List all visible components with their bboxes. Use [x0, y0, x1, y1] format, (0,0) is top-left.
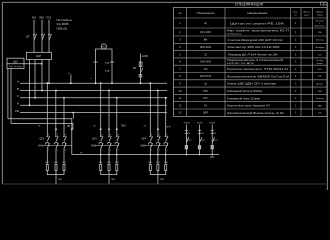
svg-text:11: 11 — [179, 96, 182, 100]
svg-text:КК3: КК3 — [164, 162, 169, 164]
wire KM1 to KK1 phase 3 — [63, 148, 65, 164]
svg-text:Щиток из серии РЕ 19А: Щиток из серии РЕ 19А — [230, 21, 285, 25]
thermal relay KK1 heater 1 — [46, 165, 48, 171]
svg-text:КК3: КК3 — [62, 162, 67, 164]
svg-text:Лисовод Дн-Л 8х4 белая на ЗМ: Лисовод Дн-Л 8х4 белая на ЗМ — [228, 52, 278, 56]
svg-text:2: 2 — [48, 150, 49, 152]
linkage KM3 — [145, 145, 169, 147]
contactor KM2 pole 1 — [99, 142, 103, 148]
wire routing h2 — [11, 124, 73, 130]
svg-text:2: 2 — [151, 150, 152, 152]
node feeder g2a — [100, 128, 102, 130]
wire drop 4 below ЩР — [48, 60, 50, 84]
svg-text:1: 1 — [48, 134, 49, 136]
svg-text:Л1: Л1 — [38, 126, 41, 128]
table column line 4 — [300, 8, 302, 117]
CT symbol left — [94, 61, 98, 63]
row 1 — [179, 21, 325, 28]
svg-text:УФЕ: УФЕ — [318, 90, 323, 93]
table row line 10 — [174, 93, 328, 95]
group 3 phase C wire — [165, 98, 167, 137]
svg-text:QF1-QF3: QF1-QF3 — [200, 30, 212, 34]
svg-text:1: 1 — [102, 134, 103, 136]
svg-text:B: B — [17, 87, 19, 91]
svg-text:ХЛУ: ХЛУ — [203, 89, 208, 93]
table column line 1 — [186, 8, 188, 117]
row 4 — [179, 45, 325, 49]
contactor KM2 pole 2 — [107, 142, 111, 148]
wire motor M1 stem — [55, 175, 57, 184]
wire PE drop — [72, 113, 74, 119]
node rail g3c — [165, 154, 167, 156]
table row line 11 — [174, 101, 328, 103]
row 11 — [179, 96, 325, 100]
svg-text:ЛЕН: ЛЕН — [121, 126, 126, 128]
svg-text:1: 1 — [295, 67, 297, 71]
svg-text:Счетчик Меркурий 230 АRT 03 СН: Счетчик Меркурий 230 АRT 03 СН — [228, 38, 283, 42]
node bus B g3 — [157, 90, 159, 92]
table outline — [174, 8, 328, 117]
meter circuit wire left — [96, 49, 113, 83]
breaker QF1 pole 1 — [33, 34, 37, 40]
svg-text:ПВУ: ПВУ — [58, 179, 63, 181]
svg-text:ЛП2Н: ЛП2Н — [183, 123, 189, 125]
svg-text:2: 2 — [159, 150, 160, 152]
svg-text:Клеммный блок (к-50мм): Клеммный блок (к-50мм) — [227, 89, 262, 93]
wire motor cable merge group 1 — [47, 171, 64, 175]
wire KM3 to KK3 phase 1 — [149, 148, 151, 164]
svg-text:Обозначение: Обозначение — [197, 11, 215, 15]
svg-text:ЛУ2Н: ЛУ2Н — [197, 123, 203, 125]
table column line 2 — [224, 8, 226, 117]
svg-text:1: 1 — [295, 38, 297, 42]
wire ЩУ routing v2 — [10, 69, 12, 124]
svg-text:Переключатель 4 позиционный: Переключатель 4 позиционный — [227, 58, 284, 62]
row 5 — [179, 52, 322, 56]
svg-text:1: 1 — [151, 134, 152, 136]
row 2 — [178, 29, 322, 36]
node bus A meter right — [111, 82, 113, 84]
node rail g2c — [116, 154, 118, 156]
table row line 1 — [174, 27, 328, 29]
node bus A g1 — [46, 82, 48, 84]
wire phase L1 supply — [33, 21, 35, 52]
terminal tick HL2 — [198, 129, 201, 131]
svg-text:12А: 12А — [318, 31, 322, 34]
bus C — [20, 97, 167, 99]
thermal relay KK2 heater 1 — [100, 165, 102, 171]
svg-text:ЦРЛ: ЦРЛ — [203, 111, 209, 115]
svg-text:Л2: Л2 — [93, 126, 96, 128]
wire drop 2 below ЩР — [34, 60, 36, 98]
wire drop 3 below ЩР — [41, 64, 43, 91]
specification table — [174, 2, 328, 117]
svg-text:1: 1 — [159, 134, 160, 136]
junction dots — [29, 63, 213, 156]
svg-text:13: 13 — [179, 111, 182, 115]
row 13 — [179, 111, 323, 115]
svg-text:ПВУ: ПВУ — [111, 179, 116, 181]
svg-text:ЛА1: ЛА1 — [32, 15, 37, 19]
group 1 phase B wire — [55, 91, 57, 137]
svg-text:Элконт: Элконт — [316, 63, 323, 65]
breaker QF4 pole 3 — [165, 136, 168, 142]
svg-text:КК1: КК1 — [148, 162, 153, 164]
svg-text:2: 2 — [102, 150, 103, 152]
svg-text:Автоматический Выключатель, ф: Автоматический Выключатель, ф 6А — [227, 111, 284, 115]
svg-text:преобразователь: преобразователь — [227, 34, 243, 36]
svg-text:8: 8 — [179, 74, 181, 78]
wire motor cable merge group 3 — [150, 171, 165, 175]
svg-text:СПЕЦИФИКАЦИЯ: СПЕЦИФИКАЦИЯ — [235, 2, 264, 6]
breaker QF2 pole 2 — [55, 136, 58, 142]
svg-text:10: 10 — [179, 89, 182, 93]
svg-text:1: 1 — [167, 134, 168, 136]
control circuit wire HL3 — [211, 125, 213, 155]
border frame — [2, 2, 327, 190]
breaker QF4 pole 2 — [157, 136, 160, 142]
switch SA1 — [141, 68, 143, 73]
node bus C g3 — [165, 97, 167, 99]
contactor KM1 pole 1 — [45, 143, 49, 149]
wire ЩУ routing v1 — [7, 69, 9, 119]
node bus A g2 — [100, 82, 102, 84]
svg-text:ВУ: ВУ — [133, 67, 137, 70]
svg-text:КК2: КК2 — [54, 162, 59, 164]
svg-text:КМ3: КМ3 — [141, 144, 146, 147]
svg-text:1: 1 — [295, 74, 297, 78]
breaker QF2 pole 3 — [63, 136, 66, 142]
contactor KM3 pole 1 — [148, 142, 152, 148]
svg-text:2: 2 — [110, 150, 111, 152]
svg-text:1: 1 — [295, 111, 297, 115]
svg-text:ПУ3: ПУ3 — [214, 140, 218, 142]
svg-text:ПВ3х25: ПВ3х25 — [57, 26, 68, 30]
CT symbol right — [110, 61, 114, 63]
group 2 phase A wire — [100, 83, 102, 136]
svg-text:QF3: QF3 — [92, 138, 97, 141]
svg-text:Легранд: Легранд — [316, 98, 324, 100]
row 3 — [179, 38, 324, 42]
svg-text:2: 2 — [118, 150, 119, 152]
svg-text:1: 1 — [295, 52, 297, 56]
node ЩУ link — [41, 63, 43, 65]
svg-text:а: а — [91, 78, 93, 80]
group 1 phase A wire — [46, 83, 48, 136]
bus A — [20, 82, 167, 84]
thermal relay KK3 heater 2 — [157, 165, 159, 171]
svg-text:Щ: Щ — [204, 82, 207, 86]
svg-text:П2: П2 — [201, 133, 203, 135]
svg-text:Читающ: Читающ — [316, 40, 324, 42]
svg-text:КК2: КК2 — [156, 162, 161, 164]
control circuit wire HL2 — [199, 125, 201, 155]
breaker QF1 pole 2 — [41, 34, 45, 40]
svg-text:Щ: Щ — [204, 21, 207, 25]
svg-text:Учет эл.энерг.: Учет эл.энерг. — [9, 66, 22, 68]
svg-text:ПЛ: ПЛ — [204, 67, 208, 71]
node bus PE tap — [72, 112, 74, 114]
svg-text:ПВУ: ПВУ — [160, 179, 165, 181]
svg-text:Л1: Л1 — [204, 52, 208, 56]
wire KM3 to KK3 phase 3 — [165, 148, 167, 164]
svg-text:ЩР: ЩР — [36, 54, 41, 58]
bus B — [20, 90, 167, 92]
svg-text:3: 3 — [179, 38, 181, 42]
lamp HL2 — [198, 146, 200, 149]
svg-text:Пускатель бесконтактн. ПТ40 34: Пускатель бесконтактн. ПТ40 340/34 А4 — [227, 67, 289, 71]
node feeder g1b — [55, 128, 57, 130]
svg-text:НЛР4Р-25 АП2: НЛР4Р-25 АП2 — [227, 62, 255, 65]
svg-text:Минэнерго: Минэнерго — [315, 26, 326, 28]
svg-text:PE: PE — [15, 109, 19, 113]
svg-text:П1: П1 — [188, 133, 190, 135]
table row line 4 — [174, 50, 328, 52]
wire motor M3 stem — [157, 175, 159, 184]
group 3 phase B wire — [157, 91, 159, 137]
svg-text:Л3: Л3 — [144, 126, 147, 128]
box ЩР distribution board — [26, 52, 51, 59]
wire phase L2 supply — [41, 21, 43, 52]
node feeder g2b — [108, 128, 110, 130]
breaker QF2 pole 1 — [46, 136, 49, 142]
svg-text:4: 4 — [179, 45, 181, 49]
svg-text:ТТ1: ТТ1 — [105, 62, 110, 65]
group 1 phase C wire — [63, 98, 65, 137]
svg-text:ЛУ1: ЛУ1 — [188, 140, 192, 142]
node feeder g3b — [157, 128, 159, 130]
svg-text:КМ2: КМ2 — [91, 144, 96, 147]
switch SA2 — [186, 137, 188, 142]
table row line 3 — [174, 42, 328, 44]
switch SA4 — [212, 137, 214, 142]
node bus A lamp branch — [140, 82, 142, 84]
svg-text:чание: чание — [317, 15, 324, 17]
breaker QF3 pole 1 — [100, 136, 103, 142]
svg-text:АЫЛ-ПхЛ: АЫЛ-ПхЛ — [200, 74, 212, 78]
svg-text:A: A — [17, 80, 19, 84]
svg-text:9: 9 — [179, 82, 181, 86]
bus PE — [20, 112, 167, 114]
svg-text:КМ1: КМ1 — [38, 144, 43, 147]
node bus A g3 — [149, 82, 151, 84]
node rail g3b — [157, 154, 159, 156]
bus N — [20, 104, 167, 106]
wire motor cable merge group 2 — [101, 171, 117, 175]
linkage KM2 — [95, 145, 119, 147]
wire routing h1 — [8, 119, 72, 155]
svg-text:ЛВ1: ЛВ1 — [39, 15, 44, 19]
lamp branch 220V wire — [140, 54, 142, 84]
lamp HL3 — [211, 146, 213, 149]
svg-text:2: 2 — [65, 150, 66, 152]
breaker QF1 pole 3 — [48, 34, 52, 40]
svg-text:Датчик: Датчик — [317, 84, 323, 86]
switch SA3 — [200, 137, 202, 142]
svg-text:Шнейдер: Шнейдер — [315, 46, 324, 49]
breaker QF3 pole 2 — [108, 136, 111, 142]
thermal relay KK1 heater 2 — [55, 165, 57, 171]
svg-text:2: 2 — [167, 150, 168, 152]
table row line 6 — [174, 64, 328, 66]
svg-text:SН1-SН2: SН1-SН2 — [200, 60, 212, 64]
row 7 — [179, 67, 322, 71]
svg-text:КК1: КК1 — [99, 162, 104, 164]
table row line 7 — [174, 72, 328, 74]
wire KM1 to KK1 phase 1 — [46, 148, 48, 164]
svg-text:Контактор 380 АН LC1D-005: Контактор 380 АН LC1D-005 — [228, 45, 281, 49]
svg-text:Приме-: Приме- — [316, 12, 324, 14]
svg-text:ед. кг: ед. кг — [304, 15, 310, 17]
svg-text:Акустичкое реле буранчи А7: Акустичкое реле буранчи А7 — [227, 104, 271, 108]
node bus A drop4 — [48, 82, 50, 84]
svg-text:ЩУ: ЩУ — [13, 59, 18, 63]
svg-text:12: 12 — [179, 103, 182, 107]
svg-text:П3: П3 — [214, 133, 216, 135]
node feeder g2c — [116, 128, 118, 130]
group 2 phase C wire — [116, 98, 118, 137]
node rail hl3 — [211, 154, 213, 156]
linkage KM1 — [43, 145, 73, 147]
lamp HL1 — [185, 146, 187, 149]
svg-text:1: 1 — [295, 60, 297, 64]
schematic labels — [9, 15, 217, 181]
node bus C g2 — [116, 97, 118, 99]
wire KM2 to KK2 phase 2 — [108, 148, 110, 164]
svg-text:C: C — [17, 94, 20, 98]
svg-text:АУ: АУ — [204, 103, 208, 107]
contactor KM2 pole 3 — [115, 142, 119, 148]
svg-text:100: 100 — [318, 54, 322, 56]
table row line 2 — [174, 35, 328, 37]
fuse FU1 — [139, 62, 142, 67]
contactor KM3 pole 2 — [156, 142, 160, 148]
table column line 5 — [312, 8, 314, 117]
table body rows — [178, 21, 325, 115]
row 6 — [179, 58, 323, 65]
svg-text:1: 1 — [295, 21, 297, 25]
contactor KM1 pole 3 — [62, 142, 66, 148]
svg-text:2: 2 — [57, 150, 58, 152]
box ЩУ metering cabinet — [7, 58, 24, 68]
table row line 12 — [174, 108, 328, 110]
svg-text:во: во — [295, 15, 298, 17]
svg-text:1: 1 — [65, 134, 66, 136]
svg-text:ПУЛ: ПУЛ — [318, 69, 323, 71]
svg-text:ЛУ2: ЛУ2 — [201, 140, 205, 142]
svg-text:1: 1 — [295, 103, 297, 107]
svg-text:ЛУН: ЛУН — [166, 127, 171, 129]
wire KM1 to KK1 phase 2 — [55, 148, 57, 164]
node rail g2a — [100, 154, 102, 156]
node rail g3a — [150, 154, 152, 156]
svg-text:Клеммный блок 12(мм): Клеммный блок 12(мм) — [227, 96, 260, 100]
svg-text:лг: лг — [69, 73, 71, 75]
svg-text:Фотовыключатель ФВ400Л ЕхЛ мхЛ: Фотовыключатель ФВ400Л ЕхЛ мхЛ-М — [227, 74, 289, 78]
svg-text:ПУ2Н: ПУ2Н — [209, 123, 215, 125]
node rail g2b — [108, 154, 110, 156]
svg-text:АПУ: АПУ — [210, 156, 215, 159]
svg-text:КК2: КК2 — [107, 162, 112, 164]
node bus C drop2 — [34, 97, 36, 99]
node bus C g1 — [63, 97, 65, 99]
table row line 5 — [174, 57, 328, 59]
wire phase L3 supply — [48, 21, 50, 52]
svg-text:QF: QF — [26, 34, 30, 38]
group 2 phase B wire — [108, 91, 110, 137]
node bus A tap stub — [70, 82, 72, 84]
svg-text:ЛБ: ЛБ — [67, 126, 71, 128]
table column line 3 — [290, 8, 292, 117]
node bus N drop1 — [29, 104, 31, 106]
svg-text:Кнопку: Кнопку — [317, 60, 323, 62]
thermal relay KK3 heater 1 — [149, 165, 151, 171]
svg-text:Масса: Масса — [303, 12, 310, 14]
svg-text:100: 100 — [318, 113, 322, 115]
svg-text:ВН: ВН — [204, 38, 208, 42]
svg-text:ЛС1: ЛС1 — [46, 15, 52, 19]
wire tap stub on bus A — [70, 75, 72, 84]
svg-text:7: 7 — [179, 67, 181, 71]
node bus A meter left — [95, 82, 97, 84]
table title СПЕЦИФИКАЦИЯ — [179, 2, 324, 16]
svg-text:QF4: QF4 — [142, 138, 147, 141]
svg-text:1: 1 — [295, 45, 297, 49]
wire KM2 to KK2 phase 1 — [100, 148, 102, 164]
lamp EL1 — [139, 74, 142, 77]
wire KM2 to KK2 phase 3 — [116, 148, 118, 164]
node feeder elbow — [71, 128, 73, 130]
svg-text:1: 1 — [295, 30, 297, 34]
svg-text:220В: 220В — [142, 55, 148, 58]
svg-text:QF2: QF2 — [39, 138, 44, 141]
svg-text:1: 1 — [295, 89, 297, 93]
svg-text:УДФ: УДФ — [318, 104, 322, 107]
svg-text:КК3: КК3 — [115, 162, 120, 164]
terminal tick HL1 — [185, 129, 188, 131]
svg-text:6: 6 — [179, 60, 181, 64]
row 9 — [179, 82, 323, 86]
svg-text:КМ1-КМ3: КМ1-КМ3 — [200, 45, 212, 49]
row 12 — [179, 103, 323, 107]
svg-text:1: 1 — [57, 134, 58, 136]
node bus B g1 — [55, 90, 57, 92]
svg-text:№: № — [179, 12, 182, 15]
breaker QF3 pole 3 — [116, 136, 119, 142]
contactor KM3 pole 3 — [164, 142, 168, 148]
corner zone box — [321, 2, 328, 5]
wire drop 1 below ЩР — [29, 60, 31, 106]
svg-text:5: 5 — [179, 52, 181, 56]
row 10 — [179, 89, 323, 93]
node rail hl1 — [186, 154, 188, 156]
node rail hl2 — [199, 154, 201, 156]
node bus B g2 — [108, 90, 110, 92]
svg-text:1: 1 — [179, 21, 181, 25]
group 3 phase A wire — [149, 83, 151, 136]
wire ЩУ to ЩР link — [24, 60, 42, 64]
svg-text:Кол-: Кол- — [293, 12, 298, 14]
table row line 8 — [174, 79, 328, 81]
breaker QF4 pole 1 — [149, 136, 152, 142]
thermal relay KK1 heater 3 — [63, 165, 65, 171]
contactor KM1 pole 2 — [54, 143, 58, 149]
svg-text:2: 2 — [178, 30, 181, 34]
svg-text:ТТ2: ТТ2 — [105, 70, 110, 73]
table row line 9 — [174, 86, 328, 88]
svg-text:1: 1 — [118, 134, 119, 136]
svg-text:Авт. пакетн. выключатель Ю-Л: Авт. пакетн. выключатель Ю-Л — [227, 29, 289, 33]
